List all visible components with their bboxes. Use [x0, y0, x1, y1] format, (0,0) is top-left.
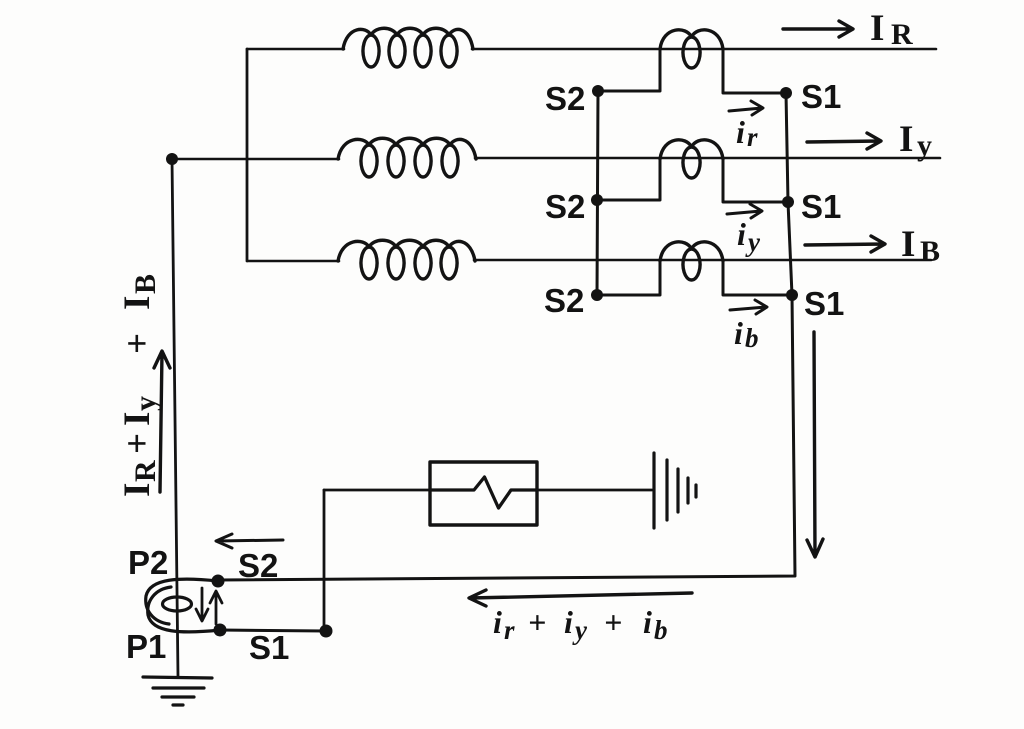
svg-text:S1: S1	[249, 629, 289, 666]
svg-text:+: +	[528, 604, 546, 640]
svg-text:+: +	[117, 333, 158, 354]
svg-text:P2: P2	[128, 544, 168, 581]
svg-text:b: b	[654, 615, 668, 645]
svg-text:r: r	[504, 615, 515, 645]
svg-text:R: R	[129, 460, 162, 482]
svg-text:S1: S1	[801, 78, 841, 115]
svg-text:P1: P1	[126, 628, 166, 665]
svg-text:i: i	[564, 604, 573, 640]
svg-text:i: i	[643, 604, 652, 640]
svg-text:y: y	[129, 396, 162, 411]
svg-text:I: I	[117, 483, 158, 497]
svg-text:S1: S1	[804, 285, 844, 322]
svg-text:+: +	[604, 604, 622, 640]
svg-text:y: y	[572, 615, 588, 645]
svg-text:I: I	[117, 296, 158, 310]
svg-text:B: B	[129, 274, 162, 294]
svg-text:B: B	[920, 235, 940, 268]
svg-text:I: I	[117, 412, 158, 426]
svg-text:i: i	[737, 216, 746, 252]
svg-text:r: r	[747, 122, 758, 152]
svg-text:S2: S2	[238, 547, 278, 584]
svg-text:S2: S2	[545, 80, 585, 117]
svg-text:R: R	[891, 18, 913, 51]
svg-text:y: y	[745, 227, 761, 257]
svg-text:S2: S2	[544, 282, 584, 319]
svg-text:i: i	[734, 315, 743, 351]
svg-text:y: y	[917, 129, 932, 162]
svg-text:I: I	[870, 8, 884, 49]
svg-text:i: i	[736, 114, 745, 150]
svg-text:S1: S1	[801, 188, 841, 225]
svg-text:I: I	[901, 224, 915, 265]
svg-text:b: b	[745, 323, 759, 353]
svg-text:S2: S2	[545, 188, 585, 225]
svg-text:+: +	[117, 433, 158, 454]
svg-text:I: I	[899, 119, 913, 160]
svg-text:i: i	[493, 604, 502, 640]
